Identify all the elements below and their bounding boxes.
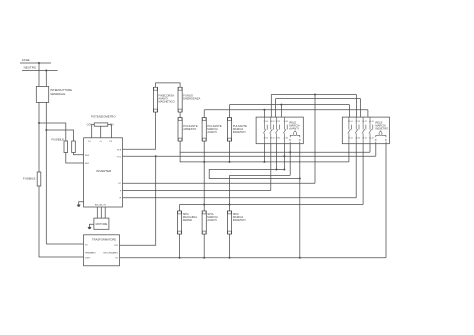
wire bus A1 interlock — [180, 151, 370, 153]
wire interlock L1 — [271, 94, 356, 96]
svg-text:AVANTI: AVANTI — [207, 130, 217, 134]
svg-text:FUSIBILE: FUSIBILE — [23, 177, 36, 181]
wire arresto drop to bus — [179, 141, 181, 162]
wire 0V secondary bottom bus — [120, 257, 387, 259]
wire stub3 link line — [209, 170, 300, 179]
wire branch to fuse F2 — [46, 130, 73, 141]
svg-text:AN+ AN- 0V: AN+ AN- 0V — [95, 204, 107, 207]
wire relay1 A1 drop — [289, 144, 291, 176]
svg-text:MOTORE: MOTORE — [96, 222, 108, 226]
ground at motor — [90, 224, 94, 227]
svg-text:INVERTER: INVERTER — [96, 169, 112, 173]
pushbutton PULSANTE MARCIA AVANTI — [202, 118, 206, 141]
junction CC riser on L1 — [314, 94, 316, 96]
wire lamp3 to bottom bus — [229, 234, 231, 258]
wire relay2 A2 drop — [385, 144, 387, 258]
wire relay1 stub1 drop — [263, 144, 265, 162]
junction arresto bus c5 — [229, 161, 231, 163]
wire NEUTRO to transformer primary — [46, 243, 83, 245]
svg-text:TRASFORMATORE: TRASFORMATORE — [92, 238, 116, 242]
wire PL1 24V bus — [123, 155, 376, 157]
potentiometer P1 body — [94, 123, 108, 126]
wire L3 risers — [280, 105, 282, 118]
wire interlock L3 — [230, 104, 350, 106]
svg-text:ARRESTO: ARRESTO — [183, 127, 196, 131]
pushbutton PULSANTE ARRESTO — [178, 118, 182, 141]
wire 24V secondary riser — [120, 156, 156, 245]
wire R bus end riser — [355, 144, 357, 198]
svg-text:FUSIBILE: FUSIBILE — [52, 138, 65, 142]
svg-text:24V: 24V — [114, 245, 118, 247]
wire R bus — [123, 197, 357, 199]
relay K2 RELE MARCIA INDIETRO — [342, 117, 389, 144]
wire NEUTRO below switch — [45, 102, 47, 244]
wire relay1 stub3 drop — [276, 144, 278, 170]
svg-text:EMERGENZA: EMERGENZA — [183, 96, 200, 100]
lamp SPIA MARCIA AVANTI — [202, 211, 206, 234]
wire indietro top riser — [229, 105, 231, 118]
wire FASE below switch — [38, 102, 40, 172]
junction L4 at relay1 — [263, 109, 265, 111]
wire relay1 stub4 drop — [283, 144, 285, 170]
wire FASE to transformer primary — [39, 186, 84, 257]
svg-text:PRIMARIO: PRIMARIO — [85, 251, 96, 254]
wire CC bus — [123, 182, 316, 184]
pushbutton PULSANTE MARCIA INDIETRO — [227, 118, 231, 141]
switch S1 INTERRUTTORE GENERALE — [36, 86, 48, 102]
junction relay1 A1 on bus — [289, 151, 291, 153]
svg-text:INDIETRO: INDIETRO — [233, 130, 246, 134]
relay K1 RELE MARCIA AVANTI — [256, 117, 303, 144]
svg-text:230V: 230V — [85, 258, 91, 260]
junction on FASE — [38, 62, 40, 64]
wire F1 to inverter ML1 — [66, 153, 84, 164]
wire L2 end risers — [275, 99, 277, 118]
wire lamp2 to bottom bus — [203, 234, 205, 258]
junction L3 at relay1 — [280, 104, 282, 106]
junction stub4 on link — [283, 169, 285, 171]
wire L1 end risers — [270, 95, 272, 118]
junction lamp bus c5 — [229, 204, 231, 206]
svg-text:A1: A1 — [289, 138, 291, 141]
svg-text:FERMA: FERMA — [183, 218, 193, 222]
limit switch FINECORSA body — [153, 87, 157, 112]
wire PL1 end riser to relay2 A1 — [375, 144, 377, 157]
motor M1 box — [94, 218, 109, 229]
transformer T1 box — [84, 235, 120, 266]
wire branch to fuse F1 — [39, 123, 66, 141]
svg-text:CC: CC — [118, 183, 122, 185]
fuse F2 — [72, 141, 76, 153]
wire L4 risers — [263, 110, 265, 117]
node FASE terminal line — [20, 62, 51, 64]
junction arresto bus relay1 — [263, 161, 265, 163]
junction stub3 line — [276, 169, 278, 171]
fuse F3 on FASE feed — [37, 172, 41, 186]
junction A2 on bottom bus — [299, 257, 301, 259]
svg-text:INDIETRO: INDIETRO — [375, 127, 388, 131]
wire fungo to arresto — [179, 112, 181, 118]
wire interlock L4 — [204, 109, 368, 111]
wire c5 branch line — [230, 174, 291, 176]
svg-text:POTENZIOMETRO: POTENZIOMETRO — [91, 115, 116, 119]
wire inverter to motor W — [104, 207, 106, 218]
node NEUTRO terminal line — [22, 70, 58, 72]
wire bus A1 end riser — [369, 144, 371, 153]
wire lamp1 to bottom bus — [179, 234, 181, 258]
wire avanti top riser — [203, 110, 205, 118]
lamp SPIA MARCIA INDIETRO — [227, 211, 231, 234]
svg-text:NEUTRO: NEUTRO — [24, 66, 37, 70]
svg-text:A1: A1 — [375, 138, 377, 141]
junction 24V on PL1 bus — [155, 155, 157, 157]
svg-text:AVANTI: AVANTI — [207, 218, 217, 222]
wire inverter to motor V — [100, 207, 102, 218]
junction FASE to fuse branch — [38, 122, 40, 124]
wire CC riser — [314, 95, 316, 184]
wire lamp bus — [180, 204, 364, 206]
wire F2 to inverter ML2 — [74, 153, 84, 155]
wire loop finecorsa to fungo — [156, 83, 181, 87]
junction lamp bus c4 — [203, 204, 205, 206]
wire FASE drop — [38, 63, 40, 86]
svg-text:GENERALE: GENERALE — [50, 92, 65, 96]
junction NEUTRO to fuse branch — [45, 129, 47, 131]
emergency stop FUNGO body — [178, 87, 182, 112]
lamp SPIA MACCHINA FERMA — [177, 211, 181, 234]
svg-text:FASE: FASE — [22, 58, 30, 62]
junction link on A2 drop — [299, 178, 301, 180]
wire arresto bus — [180, 161, 349, 163]
wire pot left leg — [92, 125, 95, 138]
wire indietro button drop — [229, 141, 231, 162]
wire pot right leg — [108, 125, 112, 138]
wire F bus — [123, 190, 271, 192]
svg-text:INDIETRO: INDIETRO — [233, 218, 246, 222]
svg-text:SECONDARIO: SECONDARIO — [103, 251, 118, 254]
junction PL1 stub4 — [283, 155, 285, 157]
ground at inverter — [79, 202, 84, 205]
wire relay1 A2 drop — [299, 144, 301, 258]
wire avanti button drop — [203, 141, 205, 211]
svg-text:MAGNETICO: MAGNETICO — [158, 99, 174, 103]
svg-text:PLB: PLB — [117, 149, 122, 151]
svg-text:A2: A2 — [299, 138, 301, 141]
wire lamp bus end riser — [362, 144, 364, 205]
fuse F1 — [64, 141, 68, 153]
wire PLB to limit switch — [123, 112, 156, 149]
junction arresto bus c4 — [203, 161, 205, 163]
wire arresto bus end riser — [348, 144, 350, 162]
svg-text:AVANTI: AVANTI — [289, 127, 299, 131]
wire lamp1 riser — [179, 205, 181, 212]
wire NEUTRO drop — [45, 71, 47, 87]
wire interlock L2 — [276, 98, 361, 100]
wire pot wiper leg — [100, 126, 102, 138]
inverter U1 box — [84, 138, 123, 207]
wire relay1 stub2 drop to F — [270, 144, 272, 191]
junction on NEUTRO — [45, 70, 47, 72]
wire inverter to motor U — [96, 207, 98, 218]
svg-text:A2: A2 — [385, 138, 387, 141]
